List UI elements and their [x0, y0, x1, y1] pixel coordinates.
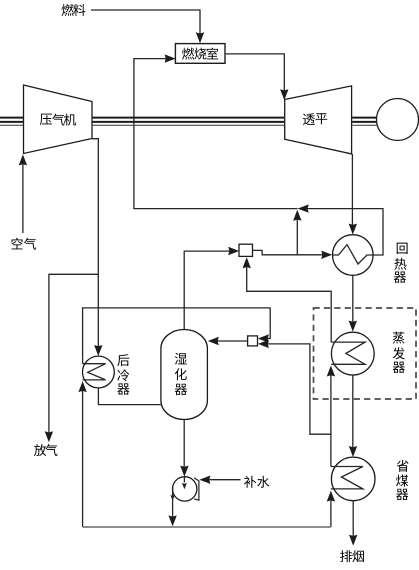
label 回热器 [394, 243, 408, 283]
pump P1 [194, 478, 199, 500]
aftercooler 后冷器 [83, 356, 115, 388]
label 排烟 (exhaust) [340, 550, 364, 562]
recuperator 回热器 [333, 235, 374, 276]
label 蒸发器 [393, 332, 405, 373]
wire makeup water into pump [208, 479, 241, 481]
wire bottom water line [83, 526, 331, 528]
wire fuel line into combustion chamber [91, 10, 200, 36]
wire compressor discharge down to aftercooler [92, 139, 98, 348]
dashed box around evaporator [314, 308, 417, 399]
wire combustor outlet to turbine [226, 54, 285, 92]
shaft right segment [352, 118, 376, 122]
wire economizer exhaust [352, 501, 354, 537]
wire turbine exhaust to recuperator [351, 154, 353, 226]
wire air inlet [22, 163, 24, 233]
wire pump outlet down [172, 487, 174, 517]
label 后冷器 [117, 354, 129, 395]
valve/mixer square M1 [239, 244, 253, 256]
wire water riser economizer to evaporator [330, 375, 332, 467]
turbine 透平 [285, 86, 352, 154]
wire aftercooler water to mixer M2 [83, 308, 271, 364]
valve/mixer square M2 [248, 336, 258, 346]
wire branch up from mixer line [296, 219, 298, 255]
humidifier vessel 湿化器 [161, 330, 208, 420]
wire humidifier top outlet [184, 251, 231, 330]
label 省煤器 [396, 460, 408, 500]
wire humid air to combustor [134, 59, 298, 209]
wire hot water branch to mixer M2 [266, 344, 331, 434]
combustion chamber box 燃烧室 [175, 44, 225, 64]
shaft middle segment [93, 118, 284, 122]
wire economizer water inlet from bottom line [330, 500, 332, 528]
economizer 省煤器 [331, 457, 375, 501]
label 补水 (makeup water) [244, 476, 269, 488]
wire humidifier drain to pump [183, 420, 185, 468]
wire aftercooler gas out to humidifier [98, 388, 160, 405]
wire steam from evaporator into mixer M1 [247, 265, 332, 342]
compressor 压气机 [24, 85, 93, 154]
evaporator 蒸发器 [331, 332, 374, 375]
generator [377, 99, 419, 141]
wire evaporator gas out to economizer [352, 375, 354, 448]
wire cooling water riser into aftercooler [82, 390, 84, 527]
wire blow-off branch [49, 274, 98, 434]
label 空气 (air) [11, 238, 36, 250]
wire recuperator gas out to evaporator [352, 275, 354, 323]
wire mixer M2 into humidifier [216, 340, 247, 342]
wire mixer M1 to recuperator [253, 250, 324, 254]
label 放气 (blow-off) [34, 444, 58, 456]
label 燃料 (fuel) [61, 4, 85, 16]
wire recuperator outlet loop to combustor line [306, 209, 383, 255]
shaft left segment [0, 118, 23, 122]
